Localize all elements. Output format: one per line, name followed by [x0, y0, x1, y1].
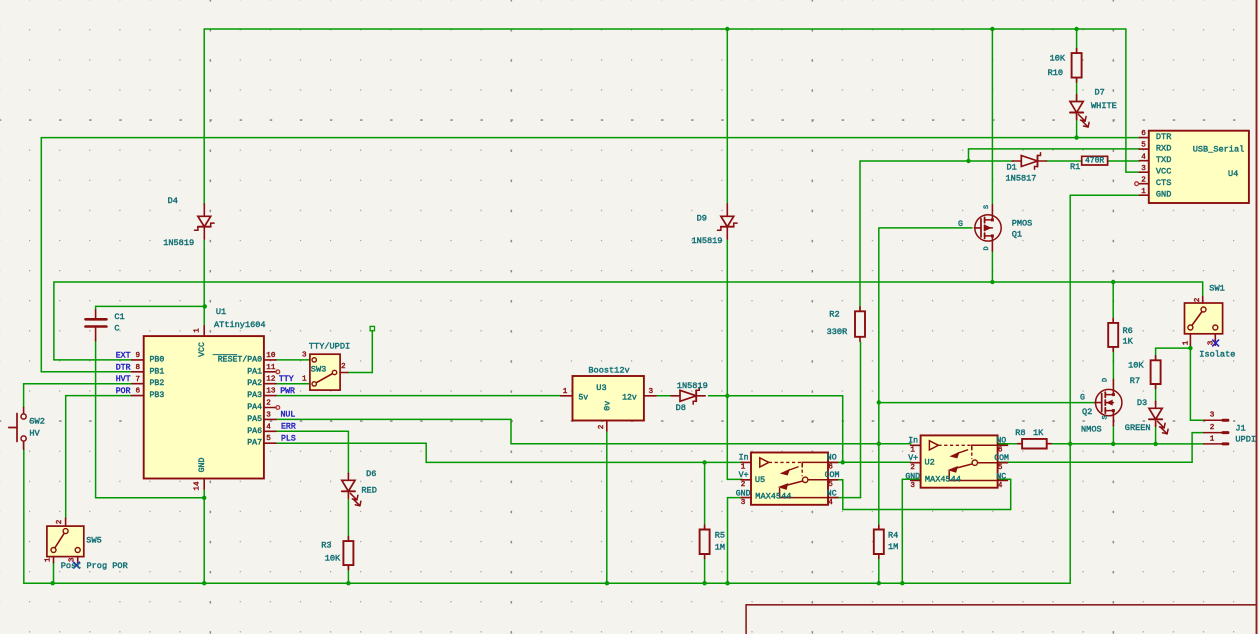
svg-text:3: 3 — [741, 499, 746, 507]
svg-text:GREEN: GREEN — [1125, 423, 1151, 433]
svg-text:R8: R8 — [1015, 428, 1025, 438]
svg-text:NMOS: NMOS — [1081, 425, 1102, 435]
svg-text:3: 3 — [1208, 340, 1216, 345]
svg-text:R1: R1 — [1070, 162, 1080, 172]
svg-text:1: 1 — [910, 446, 915, 454]
svg-text:TTY: TTY — [279, 375, 294, 384]
svg-text:D6: D6 — [366, 469, 376, 479]
svg-text:SW1: SW1 — [1209, 284, 1224, 294]
svg-text:12v: 12v — [622, 393, 637, 402]
svg-text:R2: R2 — [829, 310, 839, 320]
svg-text:8: 8 — [136, 364, 141, 372]
svg-text:2: 2 — [1210, 424, 1215, 432]
svg-text:4: 4 — [266, 423, 271, 431]
svg-text:GND: GND — [736, 490, 751, 499]
svg-text:0v: 0v — [603, 401, 612, 411]
svg-text:D8: D8 — [676, 403, 686, 413]
svg-text:6: 6 — [136, 388, 141, 396]
svg-text:2: 2 — [266, 400, 271, 408]
svg-text:V+: V+ — [739, 471, 749, 480]
svg-text:U3: U3 — [596, 383, 606, 393]
svg-text:WHITE: WHITE — [1091, 101, 1117, 111]
svg-text:MAX4544: MAX4544 — [925, 475, 961, 485]
svg-text:DTR: DTR — [1156, 132, 1171, 142]
svg-text:12: 12 — [266, 376, 276, 384]
svg-text:1N5819: 1N5819 — [677, 381, 708, 391]
svg-text:V+: V+ — [908, 454, 918, 463]
svg-text:U2: U2 — [925, 458, 935, 468]
svg-text:10: 10 — [266, 352, 276, 360]
svg-text:Boost12v: Boost12v — [588, 366, 629, 376]
svg-text:2: 2 — [341, 363, 346, 371]
svg-text:1: 1 — [193, 328, 201, 333]
svg-text:3: 3 — [1210, 412, 1215, 420]
svg-text:SW2: SW2 — [29, 417, 44, 427]
svg-text:10K: 10K — [1128, 361, 1144, 371]
svg-text:DTR: DTR — [116, 363, 131, 372]
svg-text:PA7: PA7 — [247, 439, 262, 448]
svg-text:PA5: PA5 — [247, 415, 262, 424]
svg-text:5v: 5v — [578, 393, 588, 402]
svg-text:1N5819: 1N5819 — [692, 236, 723, 246]
svg-text:470R: 470R — [1085, 156, 1104, 165]
svg-text:10K: 10K — [325, 554, 341, 564]
svg-text:R6: R6 — [1123, 326, 1133, 336]
svg-text:4: 4 — [1141, 153, 1146, 161]
svg-text:PB3: PB3 — [150, 391, 165, 400]
svg-text:2: 2 — [1194, 297, 1202, 302]
svg-text:U4: U4 — [1228, 169, 1238, 179]
svg-text:J1: J1 — [1235, 424, 1245, 434]
svg-text:14: 14 — [193, 481, 201, 491]
svg-text:CTS: CTS — [1156, 178, 1171, 188]
svg-text:2: 2 — [741, 481, 746, 489]
svg-text:PLS: PLS — [281, 435, 296, 444]
svg-text:1: 1 — [44, 557, 52, 562]
svg-text:Isolate: Isolate — [1199, 350, 1235, 360]
svg-text:D7: D7 — [1095, 88, 1105, 98]
svg-text:U5: U5 — [755, 475, 765, 485]
svg-text:RED: RED — [361, 486, 376, 496]
svg-text:3: 3 — [266, 411, 271, 419]
svg-text:5: 5 — [828, 481, 833, 489]
svg-text:GND: GND — [1156, 189, 1171, 199]
svg-text:7: 7 — [136, 376, 141, 384]
svg-text:C: C — [114, 324, 119, 334]
svg-text:1: 1 — [741, 463, 746, 471]
svg-text:D: D — [983, 246, 991, 250]
svg-text:In: In — [739, 454, 749, 463]
svg-text:R3: R3 — [321, 541, 331, 551]
svg-text:R7: R7 — [1130, 376, 1140, 386]
svg-text:PA2: PA2 — [247, 379, 262, 388]
svg-text:TTY/UPDI: TTY/UPDI — [309, 342, 350, 352]
svg-text:ATtiny1604: ATtiny1604 — [214, 320, 266, 330]
svg-text:RXD: RXD — [1156, 143, 1171, 153]
svg-text:POR: POR — [116, 387, 131, 396]
svg-text:2: 2 — [56, 519, 64, 524]
svg-text:GND: GND — [905, 473, 920, 482]
svg-text:10K: 10K — [1050, 54, 1066, 64]
svg-text:1K: 1K — [1123, 337, 1134, 347]
svg-text:PA1: PA1 — [247, 367, 262, 376]
svg-text:HVT: HVT — [116, 375, 131, 384]
svg-text:VCC: VCC — [198, 342, 207, 357]
svg-text:330R: 330R — [827, 327, 848, 337]
svg-text:D: D — [1102, 378, 1110, 382]
svg-text:RESET/PA0: RESET/PA0 — [218, 354, 262, 364]
svg-text:S: S — [983, 205, 991, 209]
svg-text:1: 1 — [1183, 340, 1191, 345]
svg-text:PMOS: PMOS — [1012, 218, 1033, 228]
svg-text:1: 1 — [302, 376, 307, 384]
svg-text:5: 5 — [998, 464, 1003, 472]
svg-text:G: G — [958, 220, 963, 229]
svg-text:6: 6 — [828, 463, 833, 471]
svg-text:11: 11 — [266, 364, 276, 372]
svg-text:R10: R10 — [1048, 68, 1063, 78]
svg-text:PA3: PA3 — [247, 391, 262, 400]
svg-text:2: 2 — [1141, 176, 1146, 184]
svg-text:R4: R4 — [888, 530, 898, 540]
svg-text:In: In — [908, 437, 918, 446]
svg-text:2: 2 — [598, 424, 606, 429]
svg-text:3: 3 — [910, 482, 915, 490]
svg-text:GND: GND — [198, 458, 207, 473]
svg-text:PA6: PA6 — [247, 427, 262, 436]
svg-text:UPDI: UPDI — [1235, 435, 1256, 445]
svg-text:6: 6 — [1141, 130, 1146, 138]
svg-text:9: 9 — [136, 352, 141, 360]
svg-text:MAX4544: MAX4544 — [755, 492, 791, 502]
svg-text:C1: C1 — [114, 312, 124, 322]
svg-text:6: 6 — [998, 446, 1003, 454]
svg-text:4: 4 — [828, 499, 833, 507]
svg-text:SW5: SW5 — [86, 536, 101, 546]
svg-text:COM: COM — [994, 454, 1009, 463]
svg-text:VCC: VCC — [1156, 166, 1171, 176]
svg-text:Q2: Q2 — [1082, 407, 1092, 417]
svg-text:NO: NO — [996, 437, 1006, 446]
svg-text:D4: D4 — [168, 196, 178, 206]
svg-text:ERR: ERR — [281, 423, 296, 432]
svg-text:13: 13 — [266, 388, 276, 396]
svg-text:Q1: Q1 — [1012, 230, 1022, 240]
svg-text:COM: COM — [825, 471, 840, 480]
svg-text:5: 5 — [266, 435, 271, 443]
svg-text:D1: D1 — [1007, 162, 1017, 172]
svg-text:NC: NC — [996, 473, 1006, 482]
svg-text:HV: HV — [29, 429, 40, 439]
svg-text:1: 1 — [563, 388, 568, 396]
svg-text:R5: R5 — [715, 530, 725, 540]
svg-text:NUL: NUL — [281, 411, 296, 420]
svg-text:NO: NO — [827, 454, 837, 463]
svg-text:3: 3 — [649, 388, 654, 396]
svg-text:D9: D9 — [697, 213, 707, 223]
svg-text:5: 5 — [1141, 142, 1146, 150]
svg-text:S: S — [1102, 415, 1110, 419]
svg-text:2: 2 — [910, 464, 915, 472]
svg-text:3: 3 — [302, 352, 307, 360]
svg-text:1N5817: 1N5817 — [1006, 173, 1037, 183]
svg-text:USB_Serial: USB_Serial — [1193, 144, 1245, 154]
svg-text:EXT: EXT — [116, 351, 131, 360]
svg-text:1: 1 — [1141, 188, 1146, 196]
svg-text:1N5819: 1N5819 — [163, 238, 194, 248]
svg-text:SW3: SW3 — [311, 364, 326, 374]
svg-text:G: G — [1080, 394, 1085, 403]
svg-text:PB2: PB2 — [150, 379, 165, 388]
svg-text:1M: 1M — [715, 543, 725, 553]
svg-text:3: 3 — [69, 557, 77, 562]
svg-text:PB1: PB1 — [150, 367, 165, 376]
svg-text:1K: 1K — [1033, 428, 1044, 438]
svg-text:1M: 1M — [888, 542, 898, 552]
svg-text:PB0: PB0 — [150, 355, 165, 364]
svg-text:4: 4 — [998, 482, 1003, 490]
svg-text:3: 3 — [1141, 165, 1146, 173]
svg-text:PWR: PWR — [280, 387, 295, 396]
svg-text:PA4: PA4 — [247, 403, 262, 412]
svg-text:D3: D3 — [1137, 398, 1147, 408]
svg-text:NC: NC — [827, 490, 837, 499]
svg-text:TXD: TXD — [1156, 155, 1171, 165]
svg-text:U1: U1 — [216, 307, 226, 317]
svg-text:1: 1 — [1210, 435, 1215, 443]
